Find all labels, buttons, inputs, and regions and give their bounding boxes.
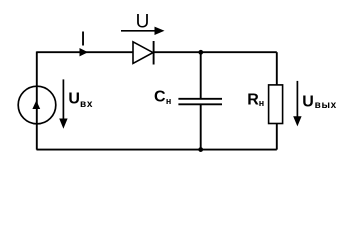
svg-text:I: I bbox=[80, 28, 86, 50]
svg-text:вых: вых bbox=[315, 100, 337, 111]
arrow Uвых (output voltage) bbox=[296, 81, 298, 118]
wire diode to top-right corner bbox=[154, 51, 277, 53]
node junction top (capacitor tap) bbox=[198, 50, 203, 55]
diode VD triangle bbox=[133, 42, 153, 64]
capacitor Cн top plate bbox=[178, 98, 222, 100]
wire bottom horizontal bbox=[37, 149, 277, 151]
wire top-left horizontal (source to diode) bbox=[37, 51, 134, 53]
diode cathode bar bbox=[153, 41, 155, 65]
svg-text:вх: вх bbox=[80, 99, 93, 110]
wire resistor bottom to bottom wire bbox=[276, 124, 278, 150]
svg-text:C: C bbox=[154, 89, 166, 106]
svg-text:U: U bbox=[302, 94, 314, 111]
capacitor Cн bottom plate bbox=[178, 103, 222, 105]
svg-text:R: R bbox=[247, 92, 259, 109]
wire capacitor bottom lead bbox=[200, 105, 202, 150]
current arrowhead I on top wire bbox=[80, 48, 89, 56]
current source arrowhead bbox=[32, 101, 40, 110]
wire right vertical down to resistor bbox=[276, 52, 278, 85]
resistor Rн body bbox=[269, 85, 283, 124]
svg-text:н: н bbox=[259, 98, 264, 108]
svg-text:U: U bbox=[136, 12, 150, 33]
node junction bottom (capacitor return) bbox=[198, 147, 203, 152]
arrow U (voltage across diode) bbox=[121, 30, 156, 32]
wire capacitor top lead bbox=[200, 52, 202, 98]
arrow Uвх (input voltage) bbox=[62, 79, 64, 120]
svg-text:U: U bbox=[68, 90, 80, 107]
current source circle bbox=[18, 86, 56, 124]
wire left vertical (through source) bbox=[36, 52, 38, 150]
svg-text:н: н bbox=[166, 96, 171, 106]
